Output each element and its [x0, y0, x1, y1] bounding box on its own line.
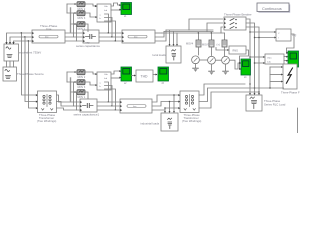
varistor MOV4 [77, 70, 85, 75]
junction column C PQ crossing [258, 37, 259, 38]
junction col3 on bus C [115, 40, 116, 41]
wire arrester A to CVT A [198, 47, 200, 55]
riser MOV row1-row2 [66, 4, 68, 13]
port arrows line1 inputs [32, 32, 34, 42]
svg-text:Three-Phase Source: Three-Phase Source [17, 72, 44, 76]
junction col1 on bus3 A [108, 101, 109, 102]
varistor MOV2 [77, 11, 85, 16]
wire PQ output loop to scope3 [287, 34, 295, 53]
port arrow THD in [134, 75, 136, 77]
port arrows breaker inputs [224, 18, 226, 28]
wire meas outc down col3 [105, 21, 116, 41]
arrester block B [209, 40, 214, 47]
junction ind loads B [169, 101, 170, 102]
junction ind loads A [164, 107, 165, 108]
junction B1 phase B [24, 36, 25, 37]
wire meas2 out1 [284, 56, 286, 58]
wire breaker out1 down [246, 19, 250, 95]
port arrows transformer1 inputs [36, 94, 38, 109]
port arrows local loads [169, 44, 179, 46]
wire breaker out2 down [246, 23, 255, 95]
block Three-Phase Transformer 1 [38, 91, 57, 113]
block active reactive power PQ [276, 29, 291, 41]
wire scope2 to THD [132, 75, 135, 77]
wire meas out2 to scope [111, 9, 121, 11]
wire CVT A-B link [199, 59, 207, 61]
svg-text:MOV 1: MOV 1 [78, 28, 86, 31]
scope Scope5 green [158, 67, 169, 85]
svg-text:MOV4: MOV4 [186, 43, 194, 46]
port arrows industrial loads [164, 111, 175, 113]
junction col3 on bus3 C [115, 109, 116, 110]
svg-text:RMS: RMS [233, 50, 239, 53]
wire line1 to cap1 A [65, 32, 83, 34]
wire meas-b outa down col1 [105, 82, 109, 102]
wire source to equiv phase A [6, 61, 8, 67]
wire MOV2 row2 [67, 82, 97, 85]
wire line1 to cap1 B [65, 36, 83, 38]
svg-text:industrial loads: industrial loads [141, 122, 160, 126]
block Three-Phase Source [3, 67, 17, 81]
port arrow scope2 in2 [119, 77, 121, 79]
arrester block C [222, 40, 227, 47]
port arrow equiv C [12, 42, 14, 44]
riser B2 to breaker in3 [221, 27, 223, 33]
riser phase C to MOV [76, 24, 78, 41]
wire trans1 to cap2 B [57, 102, 81, 107]
wire industrial loads riser B [169, 102, 171, 113]
junction CVT B [211, 32, 212, 33]
wire cap2 to line3 B [97, 105, 120, 107]
varistor MOV6 [77, 90, 85, 95]
wire industrial loads riser A [164, 108, 166, 112]
junction col2 on bus B [111, 36, 112, 37]
port arrow meas2 in1 [263, 56, 265, 58]
port arrows RLC load top [249, 93, 260, 95]
port arrow meas-b in1 [95, 73, 97, 75]
block Three-Phase Breaker [224, 17, 246, 30]
wire meas-b outb down col2 [105, 86, 113, 107]
wire local loads tap A [169, 31, 171, 46]
port arrow meas in2 [95, 16, 97, 18]
port arrow scope5 in [156, 74, 158, 76]
block Three-Phase Line 1 [32, 30, 65, 43]
junction column B PQ tap [254, 37, 255, 38]
wire meas outb down col2 [105, 18, 113, 38]
block RMS [229, 46, 246, 54]
ground symbol B [209, 70, 215, 72]
wire line2 out C step up [155, 30, 166, 41]
wire line3 out C step [152, 108, 178, 110]
wire CVT B-C link [215, 59, 221, 61]
wire equiv top B to bus [10, 37, 32, 44]
riser B2 to breaker in2 [207, 23, 223, 32]
wire equiv top C to bus [14, 41, 33, 44]
wire line3 out A step [152, 95, 178, 102]
wire fault tap A [270, 66, 281, 68]
riser phase C to MOV2 [76, 92, 78, 110]
block THD [136, 70, 153, 82]
junction B1 phase A [21, 32, 22, 33]
wire meas-b out1 to scope2 [111, 71, 119, 74]
wire source to equiv phase C [13, 61, 15, 67]
wire source to equiv phase B [9, 61, 11, 67]
port arrows cap2 inputs [80, 101, 82, 111]
wire meas-b outc down col3 [105, 89, 116, 110]
ground symbol C [223, 70, 229, 72]
port arrow meas-b in2 [95, 84, 97, 86]
varistor MOV5 [77, 80, 85, 85]
port arrow equiv A [5, 42, 7, 44]
wire arrester B to CVT B [211, 47, 213, 56]
junction ind loads C [173, 94, 174, 95]
CVT transformer A [192, 56, 200, 64]
wire line2 out A step up to bus B2 [155, 32, 162, 34]
wire equiv top A to bus [7, 33, 33, 44]
wire into RMS block [216, 48, 227, 51]
port arrows cap1 inputs [83, 32, 85, 42]
wire RMS out loop to scope4 [240, 50, 249, 69]
varistor MOV1 [77, 2, 85, 7]
wire PQ in1 from column A [250, 31, 274, 33]
svg-text:MOV 1: MOV 1 [78, 96, 86, 99]
svg-text:MOV5: MOV5 [202, 43, 210, 46]
junction B1 phase C [28, 40, 29, 41]
riser phase B to MOV2 [73, 82, 75, 106]
port arrows line3 inputs [120, 101, 122, 111]
block Three-Phase Line 2 [122, 30, 155, 43]
wire meas2 in1 from breaker col1 [250, 56, 264, 58]
CVT transformer C [222, 56, 230, 64]
wire MOV row2 [67, 13, 97, 17]
junction col1 on bus A [108, 32, 109, 33]
bus B2 wire A [166, 29, 213, 31]
port arrow scope3 in3 [286, 60, 288, 62]
scope Scope2 green [121, 67, 132, 85]
junction col2 on bus3 B [111, 105, 112, 106]
port arrow scope1 in1 [119, 4, 121, 6]
wire MOV2 row3 [71, 92, 88, 102]
port arrow RMS in [227, 49, 229, 51]
wire PQ in2 from column B [255, 37, 275, 39]
scope Scope4 green [241, 59, 251, 79]
bus B2 wire C [162, 32, 225, 34]
svg-text:(Two Windings): (Two Windings) [37, 119, 56, 123]
block Three-Phase Line 3 [120, 99, 152, 113]
wire CVT stub C [224, 33, 226, 40]
wire fault branch phase B [255, 87, 284, 89]
wire MOV row3 [71, 24, 88, 32]
wire arrester C to CVT C [224, 47, 226, 57]
port arrow equiv B [9, 42, 11, 44]
scope Scope1 green [121, 3, 132, 19]
wire line3 out B step [152, 102, 178, 107]
wire CVT C ground [225, 64, 227, 71]
wire tap down to transformer A [22, 33, 36, 95]
wire fault riser [269, 67, 271, 88]
svg-text:(+): (+) [217, 43, 220, 47]
arrester block A [196, 40, 201, 47]
svg-text:THD: THD [141, 75, 149, 79]
port arrow meas2 in2 [263, 62, 265, 64]
block measurement subsystem top [97, 4, 111, 23]
svg-text:local loads: local loads [153, 53, 167, 57]
wire line1 to cap1 C [65, 40, 83, 42]
wire MOV row1 [67, 4, 97, 6]
junction RLC B [254, 87, 255, 88]
wire CVT secondary to scope4 [229, 60, 239, 69]
junction RLC C [258, 91, 259, 92]
wire cap2 to line3 C [97, 109, 120, 111]
wire cap2 to line3 A [97, 101, 120, 103]
wire trans2 out B loop [199, 88, 255, 102]
block series capacitance [83, 30, 99, 43]
varistor MOV3 [77, 22, 85, 27]
wire meas2 out2 [284, 60, 286, 62]
junction fault riser [269, 87, 270, 88]
wire trans2 out A loop [199, 84, 245, 95]
svg-text:series capacitance: series capacitance [76, 44, 100, 48]
riser MOV2 row1-row2 [66, 72, 68, 82]
wire meas2 in2 from breaker col2 [255, 62, 264, 64]
wire local loads tap C [176, 33, 178, 45]
wire cap1 to line2 B [99, 36, 122, 38]
port arrow scope2 in1 [119, 70, 121, 72]
block source equivalent impedance Z1 [4, 44, 19, 61]
wire CVT stub B [211, 33, 213, 40]
wire fault tap C [270, 81, 281, 83]
svg-text:(Two Windings): (Two Windings) [182, 119, 201, 123]
svg-text:Series RLC Load: Series RLC Load [264, 102, 286, 106]
port arrow scope4 in1 [239, 62, 241, 64]
junction breaker col2 tap [254, 62, 255, 63]
block series capacitance1 [80, 99, 97, 112]
powergui block [257, 3, 290, 13]
bus B2 wire B [164, 31, 213, 33]
block Three-Phase Transformer 2 [180, 91, 199, 113]
junction breaker col1 tap [249, 56, 250, 57]
svg-text:Three-Phase F: Three-Phase F [281, 90, 300, 94]
block local loads [166, 46, 181, 63]
wire trans1 to cap2 C [57, 108, 81, 110]
wire fault tap B [270, 74, 281, 76]
wire breaker out3 down [246, 27, 259, 95]
wire CVT A ground [195, 64, 197, 68]
wire right edge vertical [297, 108, 299, 133]
port arrow scope1 in2 [119, 9, 121, 11]
riser MOV left gray [70, 8, 72, 33]
block Three-Phase Series RLC Load [246, 95, 262, 111]
ground symbol A [193, 67, 199, 69]
svg-text:series capacitance1: series capacitance1 [74, 113, 100, 117]
port arrow PQ in2 [274, 37, 276, 39]
CVT transformer B [208, 56, 216, 64]
junction RLC A [249, 83, 250, 84]
wire trans2 out C loop [199, 92, 259, 108]
junction column A PQ tap [249, 31, 250, 32]
port arrow scope3 in2 [286, 56, 288, 58]
riser B2 to breaker in1 [189, 19, 223, 30]
riser MOV2 left gray [70, 78, 72, 102]
port arrow PQ in1 [274, 31, 276, 33]
wire meas-b out2 to scope2 [111, 77, 119, 79]
wire CVT B ground [211, 64, 213, 71]
port arrows fault inputs [281, 66, 283, 83]
port arrows transformer2 inputs [178, 94, 180, 109]
wire cap1 to line2 C [99, 40, 122, 42]
port arrow meas in1 [95, 5, 97, 7]
svg-text:MOV 3: MOV 3 [78, 17, 86, 20]
wire line2 out B step up [155, 32, 164, 38]
block measurement subsystem bottom [97, 72, 111, 91]
wire tap down to transformer C [29, 41, 36, 108]
wire cap1 to line2 A [99, 32, 122, 34]
svg-text:MOV 2: MOV 2 [78, 76, 86, 79]
port arrow scope3 in1 [286, 52, 288, 54]
port arrow scope4 in2 [239, 68, 241, 70]
svg-text:equivalent 735kV: equivalent 735kV [19, 51, 41, 55]
block Three-Phase Fault [283, 64, 297, 89]
block measurement V-I right [265, 54, 284, 64]
wire industrial loads riser C [173, 95, 175, 112]
block industrial loads [161, 113, 178, 131]
svg-text:MOV 3: MOV 3 [78, 86, 86, 89]
wire THD to scope5 [153, 74, 156, 76]
scope Scope3 green [288, 51, 299, 71]
wire CVT stub A [198, 33, 200, 40]
port arrows line2 inputs [122, 32, 124, 42]
riser phase B to MOV [73, 13, 75, 37]
wire tap down to transformer B [25, 37, 36, 102]
wire MOV2 row1 [67, 72, 97, 74]
wire meas outa down col1 [105, 14, 109, 33]
junction CVT A [198, 32, 199, 33]
svg-text:Continuous: Continuous [262, 6, 282, 11]
svg-text:Three-Phase Breaker: Three-Phase Breaker [224, 12, 252, 16]
wire local loads tap B [173, 32, 175, 46]
wire trans1 to cap2 A [57, 95, 81, 102]
wire meas out1 to scope [111, 3, 120, 6]
